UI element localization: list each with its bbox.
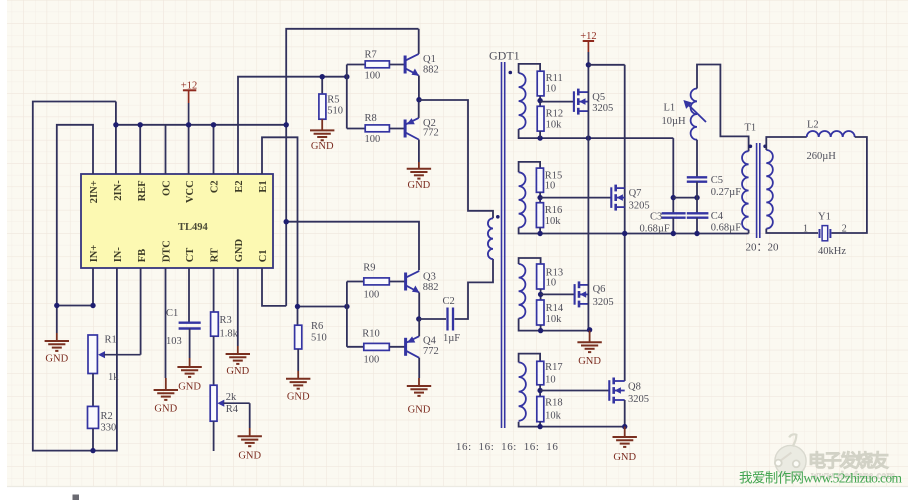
svg-text:330: 330 bbox=[101, 423, 117, 434]
node junction R17/R18 gate bbox=[537, 388, 542, 393]
svg-text:510: 510 bbox=[327, 106, 343, 117]
wire C2 pin bbox=[213, 125, 215, 174]
svg-text:100: 100 bbox=[364, 289, 380, 300]
wire R18 bottom stem bbox=[539, 422, 541, 427]
wire C5 bottom to C4 bbox=[696, 182, 698, 213]
svg-text:TL494: TL494 bbox=[178, 222, 209, 233]
node junction E2/R5 bbox=[320, 74, 325, 79]
wire R9/R10 feed column bbox=[346, 282, 348, 347]
wire left reference ground stem bbox=[56, 306, 58, 334]
wire DTC pin to ground bbox=[165, 268, 167, 378]
svg-text:100: 100 bbox=[364, 354, 380, 365]
svg-text:R16: R16 bbox=[545, 205, 563, 216]
resistor R12 bbox=[537, 106, 563, 131]
svg-text:C5: C5 bbox=[711, 175, 723, 186]
wire node column x=286 (Q1 collector to C1 pin) bbox=[286, 29, 418, 306]
wire C1 bottom to ground bbox=[189, 329, 191, 359]
svg-text:100: 100 bbox=[365, 134, 381, 145]
IC U1 TL494 PWM controller bbox=[81, 174, 273, 268]
svg-text:Q7: Q7 bbox=[629, 188, 642, 199]
wire R7/R8 feed column bbox=[346, 65, 348, 129]
wire 2IN- pin to loop bbox=[115, 102, 117, 175]
resistor R18 bbox=[537, 397, 563, 422]
wire T1 secondary top to L2 bbox=[766, 137, 806, 150]
svg-text:10µH: 10µH bbox=[662, 116, 687, 127]
svg-text:GND: GND bbox=[613, 452, 636, 463]
wire Q2 emitter to ground bbox=[418, 140, 420, 163]
node GDT1 secondary 1 phase dot bbox=[509, 71, 513, 75]
wire winding3 top to R13 bbox=[519, 258, 541, 264]
resistor R10 bbox=[362, 328, 389, 365]
svg-text:0.27µF: 0.27µF bbox=[711, 187, 741, 198]
svg-text:0.68µF: 0.68µF bbox=[711, 223, 741, 234]
ground R5 ground bbox=[310, 119, 334, 140]
ground Q2 ground bbox=[407, 162, 431, 179]
node T1 secondary phase dot bbox=[763, 145, 767, 149]
wire R11/R12 junction column bbox=[539, 96, 541, 106]
wire Q3/Q4 output to C2 bbox=[419, 318, 446, 320]
wire Q6 drain column bbox=[587, 138, 589, 330]
svg-text:1k: 1k bbox=[108, 372, 119, 383]
wire RT pin to R3 bbox=[213, 268, 215, 312]
svg-text:C2: C2 bbox=[443, 296, 455, 307]
svg-text:GND: GND bbox=[408, 405, 431, 416]
node junction Q5 source bbox=[586, 135, 591, 140]
wire Q3 emitter bbox=[418, 293, 420, 320]
wire R8 right lead bbox=[389, 128, 405, 130]
wire E1 pin to R6 top bbox=[262, 137, 298, 325]
ground R4 ground bbox=[238, 428, 262, 446]
svg-text:GND: GND bbox=[45, 354, 68, 365]
node junction R12 bottom bbox=[537, 135, 542, 140]
resistor R9 bbox=[363, 262, 389, 300]
node junction C3/C5 link right bbox=[694, 195, 699, 200]
node junction C4 bottom bbox=[694, 231, 699, 236]
node junction R16 bottom bbox=[537, 231, 542, 236]
svg-text:CT: CT bbox=[185, 248, 196, 263]
svg-text:R6: R6 bbox=[311, 321, 323, 332]
svg-text:2: 2 bbox=[842, 224, 847, 235]
node junction R14 bottom bbox=[538, 328, 543, 333]
node junction Q3/Q4 bbox=[416, 316, 421, 321]
node junction R15/R16 gate bbox=[537, 195, 542, 200]
wire winding2 bottom to mid bus bbox=[519, 227, 749, 233]
svg-text:1µF: 1µF bbox=[443, 333, 460, 344]
capacitor C3 bbox=[662, 213, 686, 217]
wire winding2 top to R15 bbox=[519, 162, 541, 172]
resistor R14 bbox=[537, 300, 564, 325]
wire R9/R10 feed from E1 node bbox=[298, 306, 347, 308]
svg-text:我爱制作网www.52zhizuo.com: 我爱制作网www.52zhizuo.com bbox=[739, 471, 902, 486]
wire Q4 emitter to ground bbox=[418, 358, 420, 378]
svg-text:10: 10 bbox=[546, 84, 557, 95]
svg-text:GND: GND bbox=[408, 180, 431, 191]
GDT1 secondary winding 2 bbox=[519, 172, 526, 227]
resistor R17 bbox=[537, 361, 563, 385]
wire winding1 top to R11 bbox=[519, 64, 541, 73]
U1 pin name labels (top row) bbox=[89, 180, 269, 203]
GDT1 secondary winding 3 bbox=[519, 264, 526, 318]
transistor Q3 (NPN 882) bbox=[406, 271, 420, 293]
svg-text:C3: C3 bbox=[650, 212, 662, 223]
wire R7 right lead bbox=[389, 64, 405, 66]
svg-text:RT: RT bbox=[209, 248, 220, 262]
resistor R15 bbox=[536, 168, 562, 192]
svg-text:R8: R8 bbox=[365, 113, 377, 124]
transistor Q2 (PNP 772) bbox=[405, 118, 419, 140]
node junction Q6 source bbox=[587, 327, 592, 332]
GDT1 secondary winding 1 bbox=[519, 73, 526, 129]
node junction IN+/R1 bbox=[90, 303, 95, 308]
GDT1 primary winding bbox=[488, 218, 493, 259]
wire R5 top stem bbox=[321, 77, 323, 94]
node junction +12 branch bbox=[586, 62, 591, 67]
transistor Q4 (PNP 772) bbox=[406, 336, 420, 358]
wire C3 bottom stem bbox=[672, 218, 674, 234]
node junction E1-node/R9R10 bbox=[344, 304, 349, 309]
svg-text:REF: REF bbox=[137, 180, 148, 201]
GDT1 core bbox=[502, 62, 505, 428]
transistor Q6 (MOSFET) bbox=[541, 281, 589, 307]
svg-text:IN-: IN- bbox=[113, 247, 124, 263]
node junction R11/R12 gate bbox=[537, 98, 542, 103]
transistor Q7 (MOSFET) bbox=[540, 185, 625, 211]
T1 core bbox=[757, 143, 760, 238]
power +12 (bridge) bbox=[580, 31, 596, 52]
svg-text:R12: R12 bbox=[546, 108, 564, 119]
wire IN+ pin to R1 top bbox=[92, 268, 94, 306]
resistor R4 (potentiometer) bbox=[210, 385, 239, 421]
svg-text:10: 10 bbox=[546, 277, 557, 288]
svg-text:T1: T1 bbox=[745, 123, 757, 134]
node junction C3/C5 link left bbox=[671, 195, 676, 200]
wire T1 primary bottom riser bbox=[748, 230, 750, 234]
wire drive node to Q3/Q4 collector line bbox=[286, 222, 419, 271]
wire Q5 drain column (+12) bbox=[587, 52, 589, 138]
power +12 (VCC) bbox=[181, 80, 197, 125]
svg-text:C2: C2 bbox=[209, 180, 220, 193]
ground Q4 ground bbox=[407, 378, 431, 396]
node junction bus/REF bbox=[138, 122, 143, 127]
node junction R2/loop bbox=[90, 448, 95, 453]
resistor R16 bbox=[536, 203, 562, 228]
T1 secondary winding bbox=[766, 150, 773, 229]
wire OC pin bbox=[165, 125, 167, 174]
wire FB pin to R1 wiper bbox=[140, 268, 142, 355]
inductor L2 (260uH) bbox=[807, 131, 855, 137]
wire R12 bottom stem bbox=[539, 131, 541, 138]
transistor Q8 (MOSFET) bbox=[540, 378, 625, 404]
R4 wiper arrow bbox=[217, 400, 249, 407]
node junction bus/Q1-loop bbox=[284, 122, 289, 127]
wire C1 pin loop to node column bbox=[262, 268, 286, 306]
transistor Q1 (NPN 882) bbox=[405, 54, 419, 76]
svg-text:C1: C1 bbox=[166, 308, 178, 319]
svg-text:Q5: Q5 bbox=[592, 92, 605, 103]
wire R6 bottom stem bbox=[297, 349, 299, 371]
wire +12 branch to Q7 column bbox=[588, 64, 624, 66]
wire R16 bottom stem bbox=[539, 228, 541, 234]
wire R4 bottom stub bbox=[213, 421, 215, 451]
svg-text:R5: R5 bbox=[327, 95, 339, 106]
svg-text:0.68µF: 0.68µF bbox=[640, 224, 670, 235]
svg-text:2k: 2k bbox=[226, 392, 237, 403]
svg-text:R7: R7 bbox=[365, 49, 377, 60]
svg-text:R3: R3 bbox=[220, 315, 232, 326]
node junction node column/drive line bbox=[284, 219, 289, 224]
inductor L1 (variable 10uH) bbox=[662, 89, 707, 140]
wire Q4 collector bbox=[418, 319, 420, 336]
resistor R6 bbox=[295, 321, 327, 349]
wire Q1/Q2 output to GDT primary bbox=[419, 100, 493, 218]
wire winding4 top to R17 bbox=[519, 354, 541, 363]
wire R4 wiper to ground bbox=[249, 403, 251, 428]
wire bus REF/VCC/C2 row bbox=[116, 124, 286, 126]
svg-text:Q8: Q8 bbox=[628, 381, 641, 392]
wire R10 left lead bbox=[347, 346, 364, 348]
ground Q6 ground bbox=[577, 331, 601, 353]
wire Q2 collector bbox=[418, 100, 420, 118]
svg-text:R17: R17 bbox=[545, 362, 563, 373]
svg-text:GND: GND bbox=[311, 141, 334, 152]
svg-text:GND: GND bbox=[238, 451, 261, 462]
watermark logo (decor) bbox=[775, 434, 806, 476]
svg-text:Q6: Q6 bbox=[593, 284, 606, 295]
svg-text:10: 10 bbox=[545, 374, 556, 385]
wire R15/R16 junction column bbox=[539, 192, 541, 202]
svg-text:C1: C1 bbox=[258, 249, 269, 262]
resistor R2 bbox=[88, 406, 117, 433]
ground left reference bbox=[45, 333, 69, 351]
svg-text:电子发烧友: 电子发烧友 bbox=[808, 450, 889, 471]
svg-text:3205: 3205 bbox=[592, 103, 613, 114]
svg-text:C4: C4 bbox=[711, 211, 724, 222]
svg-text:+12: +12 bbox=[181, 80, 197, 91]
node GDT1 primary phase dot bbox=[496, 215, 500, 219]
svg-text:GND: GND bbox=[154, 404, 177, 415]
svg-text:DTC: DTC bbox=[161, 240, 172, 262]
svg-text:3205: 3205 bbox=[628, 394, 649, 405]
svg-text:10: 10 bbox=[545, 181, 556, 192]
svg-text:16: 16: 16: 16: 16: 16: 16: 16: 16: 16 bbox=[456, 441, 559, 453]
svg-text:FB: FB bbox=[137, 249, 148, 262]
node junction bus/C2 bbox=[211, 122, 216, 127]
wire Q1 emitter bbox=[418, 76, 420, 100]
resistor R7 bbox=[365, 49, 390, 81]
T1 primary winding bbox=[742, 151, 749, 230]
wire R7 left lead bbox=[347, 64, 365, 66]
wire Q8 source to ground bbox=[624, 400, 626, 427]
wire CT pin to C1 bbox=[188, 268, 190, 322]
wire R13/R14 junction column bbox=[540, 289, 542, 300]
wire C4 bottom stem bbox=[696, 218, 698, 234]
ground RT ground bbox=[226, 346, 250, 364]
svg-text:R18: R18 bbox=[545, 398, 563, 409]
wire L1 bottom to C5 bbox=[696, 140, 698, 177]
wire C3/C5 link bbox=[673, 197, 697, 199]
ground Q8 ground bbox=[613, 427, 637, 447]
node junction Q1/Q2 bbox=[416, 97, 421, 102]
svg-text:10k: 10k bbox=[546, 119, 563, 130]
svg-text:OC: OC bbox=[161, 180, 172, 196]
wire R17/R18 junction column bbox=[539, 385, 541, 397]
svg-text:510: 510 bbox=[311, 333, 327, 344]
svg-text:3205: 3205 bbox=[629, 200, 650, 211]
svg-text:772: 772 bbox=[423, 128, 439, 139]
wire R9 right lead bbox=[389, 281, 405, 283]
wire R3 to R4 bbox=[213, 336, 215, 385]
svg-text:20：20: 20：20 bbox=[746, 242, 779, 254]
node junction E2/R7R8 bbox=[344, 74, 349, 79]
svg-text:1: 1 bbox=[803, 224, 808, 235]
svg-text:R2: R2 bbox=[101, 411, 113, 422]
svg-text:100: 100 bbox=[365, 70, 381, 81]
svg-text:GND: GND bbox=[234, 239, 245, 263]
svg-text:E2: E2 bbox=[234, 180, 245, 192]
svg-text:R4: R4 bbox=[226, 404, 239, 415]
svg-text:772: 772 bbox=[423, 346, 439, 357]
svg-text:L1: L1 bbox=[664, 103, 676, 114]
U1 pin name labels (bottom row) bbox=[89, 239, 269, 263]
resistor R3 bbox=[211, 312, 239, 340]
svg-text:103: 103 bbox=[166, 336, 182, 347]
capacitor C1 bbox=[179, 323, 201, 329]
resistor R8 bbox=[365, 113, 390, 145]
node junction E1/R6 bbox=[295, 304, 300, 309]
ground CT ground bbox=[177, 358, 201, 377]
svg-text:260µH: 260µH bbox=[807, 151, 837, 162]
wire mid bus risers C3 bbox=[672, 138, 674, 213]
resistor R13 bbox=[537, 264, 564, 289]
svg-text:GND: GND bbox=[226, 366, 249, 377]
wire winding3 bottom to Q6 source bbox=[519, 318, 590, 330]
transistor Q5 (MOSFET) bbox=[540, 89, 588, 115]
wire GND pin bbox=[237, 268, 239, 346]
node junction R18 bottom bbox=[537, 424, 542, 429]
svg-text:GDT1: GDT1 bbox=[489, 49, 520, 63]
wire winding4 bottom to Q8 source bbox=[519, 422, 625, 427]
node junction R13/R14 gate bbox=[538, 292, 543, 297]
wire Q7/Q8 drain column bbox=[624, 65, 626, 381]
svg-text:GND: GND bbox=[287, 392, 310, 403]
wire inner loop: 2IN+ to GND corner bbox=[57, 125, 93, 306]
svg-text:R1: R1 bbox=[105, 335, 117, 346]
wire C2 to GDT primary bottom bbox=[455, 259, 494, 319]
wire GND spur to IN+ node bbox=[57, 305, 93, 307]
svg-text:2IN-: 2IN- bbox=[113, 180, 124, 201]
svg-text:10k: 10k bbox=[545, 410, 562, 421]
wire winding1 bottom to source bus bbox=[519, 129, 674, 138]
svg-text:L2: L2 bbox=[807, 120, 819, 131]
wire outer loop: 2IN- / IN- / R2 bottom bbox=[33, 102, 117, 451]
node T1 primary phase dot bbox=[749, 145, 753, 149]
resistor R11 bbox=[537, 71, 563, 96]
svg-text:Y1: Y1 bbox=[818, 212, 831, 223]
wire R2 bottom bbox=[92, 428, 94, 450]
capacitor C4 bbox=[687, 213, 709, 217]
svg-text:10k: 10k bbox=[545, 216, 562, 227]
node junction bus/VCC bbox=[186, 122, 191, 127]
wire R1 bottom to R2 top bbox=[92, 374, 94, 407]
wire L1 top loop to T1 primary bbox=[697, 65, 749, 152]
svg-text:GND: GND bbox=[578, 356, 601, 367]
wire R9 left lead bbox=[347, 281, 364, 283]
svg-text:R14: R14 bbox=[546, 303, 564, 314]
svg-text:10k: 10k bbox=[546, 314, 563, 325]
wire R14 bottom stem bbox=[540, 325, 542, 331]
wire REF pin bbox=[139, 125, 141, 174]
wire R8 left lead bbox=[347, 128, 365, 130]
svg-text:1.8k: 1.8k bbox=[220, 329, 239, 340]
R1 wiper arrow bbox=[98, 351, 141, 358]
svg-text:R10: R10 bbox=[362, 328, 380, 339]
node junction bus/2IN- bbox=[113, 122, 118, 127]
resistor R5 bbox=[319, 94, 343, 119]
svg-text:Q3: Q3 bbox=[423, 271, 436, 282]
svg-text:GND: GND bbox=[178, 382, 201, 393]
node junction C3 bottom bbox=[671, 231, 676, 236]
wire T1 secondary bottom to Y1 pin 1 bbox=[766, 229, 818, 233]
svg-text:40kHz: 40kHz bbox=[818, 246, 846, 257]
svg-text:882: 882 bbox=[423, 282, 439, 293]
capacitor C2 bbox=[448, 308, 454, 331]
node junction Q8 source bbox=[622, 424, 627, 429]
svg-text:+12: +12 bbox=[580, 31, 596, 42]
svg-text:882: 882 bbox=[423, 65, 439, 76]
resistor R1 (potentiometer) bbox=[88, 335, 119, 384]
wire R10 right lead bbox=[389, 346, 405, 348]
node junction Q7 source / Q8 drain bbox=[622, 231, 627, 236]
svg-text:R9: R9 bbox=[363, 262, 375, 273]
svg-text:VCC: VCC bbox=[185, 180, 196, 203]
wire E2 pin to base drive node bbox=[238, 77, 347, 174]
svg-text:2IN+: 2IN+ bbox=[89, 180, 100, 203]
wire L2 to Y1 pin 2 bbox=[832, 137, 867, 233]
wire Q1 collector bbox=[418, 29, 420, 54]
capacitor C5 bbox=[687, 177, 707, 181]
svg-text:Q4: Q4 bbox=[423, 335, 437, 346]
GDT1 secondary winding 4 bbox=[519, 362, 526, 420]
crystal Y1 (40kHz) bbox=[820, 226, 831, 241]
svg-text:IN+: IN+ bbox=[89, 245, 100, 263]
svg-text:E1: E1 bbox=[258, 180, 269, 192]
node junction GND spur bbox=[54, 303, 59, 308]
svg-text:3205: 3205 bbox=[593, 297, 614, 308]
ground DTC ground bbox=[154, 378, 178, 400]
wire VCC pin bbox=[188, 125, 190, 174]
ground R6 ground bbox=[286, 371, 310, 389]
svg-text:Q1: Q1 bbox=[423, 54, 436, 65]
